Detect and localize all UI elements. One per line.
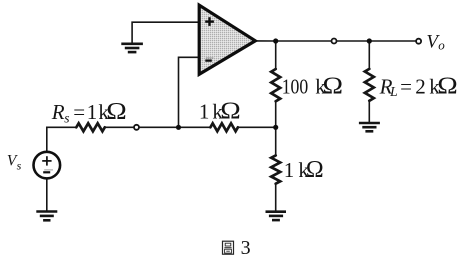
svg-text:Ω: Ω [220,97,240,124]
svg-text:100k: 100k [282,74,327,98]
svg-text:Ω: Ω [306,157,324,183]
svg-text:RL=2k: RL=2k [379,75,441,100]
svg-text:Ω: Ω [323,72,343,99]
svg-text:3: 3 [241,237,251,259]
svg-text:Rs=1k: Rs=1k [51,100,110,126]
svg-text:Ω: Ω [437,72,457,99]
svg-text:Ω: Ω [106,97,126,124]
